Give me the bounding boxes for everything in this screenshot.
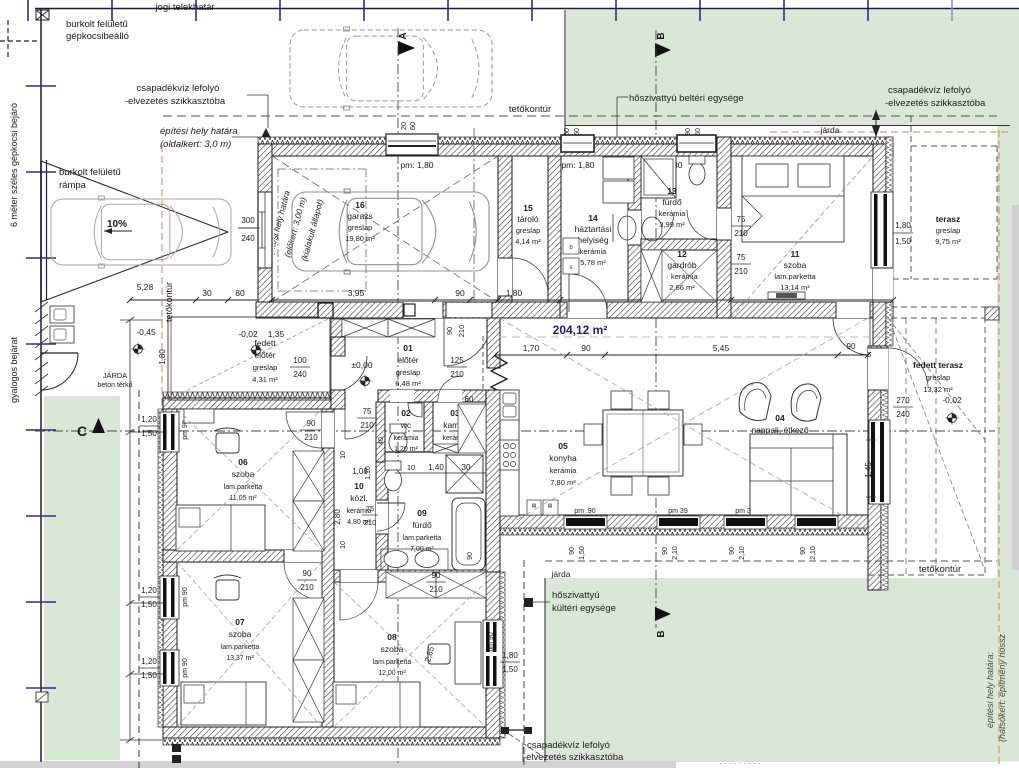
axis line garage window xyxy=(473,128,475,310)
wall west of wc xyxy=(376,402,385,462)
svg-text:90: 90 xyxy=(307,419,316,428)
garage vehicle door opening xyxy=(256,192,274,268)
svg-text:B: B xyxy=(656,32,667,39)
room11 radiator xyxy=(768,292,805,299)
living area label box xyxy=(752,437,808,459)
svg-text:tetőkontúr: tetőkontúr xyxy=(919,564,961,575)
svg-text:75: 75 xyxy=(363,407,372,416)
drain symbol top wall xyxy=(261,128,271,138)
wc corner basin xyxy=(408,403,422,417)
svg-text:210: 210 xyxy=(304,433,318,442)
bath09 sinks xyxy=(381,549,448,570)
svg-text:10: 10 xyxy=(354,481,364,491)
svg-text:7,80 m²: 7,80 m² xyxy=(550,478,576,487)
svg-text:előtér: előtér xyxy=(254,350,275,360)
svg-text:közl.: közl. xyxy=(350,493,367,503)
svg-text:pm 90: pm 90 xyxy=(182,658,189,678)
svg-text:90: 90 xyxy=(800,547,807,555)
bedroom07 chair xyxy=(216,580,239,600)
svg-text:210: 210 xyxy=(450,370,464,379)
svg-text:1,80: 1,80 xyxy=(502,651,518,660)
svg-text:kerámia: kerámia xyxy=(659,209,687,218)
roof contour dashed top xyxy=(163,115,997,117)
svg-text:lam.parketta: lam.parketta xyxy=(224,484,263,491)
svg-text:15: 15 xyxy=(523,203,533,213)
svg-text:greslap: greslap xyxy=(396,368,421,377)
bath09 toilet xyxy=(385,469,402,491)
svg-text:210: 210 xyxy=(429,585,443,594)
svg-text:1,80: 1,80 xyxy=(506,288,523,298)
svg-text:14: 14 xyxy=(588,213,598,223)
living sofa xyxy=(750,434,847,515)
bedroom06 bed xyxy=(176,505,265,551)
wall garage left xyxy=(258,144,272,317)
svg-text:tetőkontúr: tetőkontúr xyxy=(164,282,174,322)
covered terrace dashed outline xyxy=(891,306,985,308)
svg-text:1,20: 1,20 xyxy=(141,657,157,666)
svg-text:06: 06 xyxy=(238,457,248,467)
svg-text:210: 210 xyxy=(457,325,466,338)
svg-text:jogi telekhatár: jogi telekhatár xyxy=(154,2,214,13)
orange dashed line vertical right xyxy=(998,130,1000,765)
svg-text:75: 75 xyxy=(737,215,746,224)
svg-text:fedett terasz: fedett terasz xyxy=(913,360,963,370)
window living right wall xyxy=(869,420,890,504)
bedroom07 diagonals xyxy=(177,562,322,727)
section line A-A vertical dash-dot xyxy=(397,28,399,764)
svg-text:hőszivattyú beltéri egysége: hőszivattyú beltéri egysége xyxy=(629,93,744,104)
living armchair 2 xyxy=(791,384,821,421)
car in garage xyxy=(292,192,489,271)
car parked top (dashed) xyxy=(290,30,492,107)
svg-text:gépkocsibeálló: gépkocsibeálló xyxy=(66,31,129,42)
wall north of bedroom06 xyxy=(163,392,334,398)
wall bath column west of kitchen xyxy=(486,390,500,572)
svg-text:20: 20 xyxy=(399,122,408,130)
bedroom06 wardrobe xyxy=(293,451,324,501)
svg-text:240: 240 xyxy=(241,234,255,243)
covered entry outline xyxy=(168,317,330,400)
bath13 shower xyxy=(641,156,676,198)
bedroom06 desk xyxy=(184,409,214,423)
bath13 toilet xyxy=(689,163,705,185)
bedroom07 bed xyxy=(181,682,266,725)
svg-text:07: 07 xyxy=(235,617,245,627)
svg-text:240: 240 xyxy=(896,410,910,419)
roof contour dashed bottom xyxy=(545,560,997,562)
svg-text:4,14 m²: 4,14 m² xyxy=(515,237,541,246)
wall east exterior bedroom08 xyxy=(486,572,500,738)
wall right exterior north section xyxy=(873,144,886,346)
svg-text:1,70: 1,70 xyxy=(523,343,540,353)
svg-text:19,80 m²: 19,80 m² xyxy=(345,234,375,243)
svg-text:1,50: 1,50 xyxy=(579,546,586,560)
svg-text:1,08: 1,08 xyxy=(352,467,368,476)
svg-text:90: 90 xyxy=(569,547,576,555)
room14 small boxes xyxy=(563,238,579,254)
svg-text:C: C xyxy=(77,423,87,439)
svg-text:kültéri egysége: kültéri egysége xyxy=(552,603,616,614)
room11 dashed diagonal xyxy=(731,156,873,318)
svg-text:90: 90 xyxy=(455,288,465,298)
bedroom08 desk xyxy=(455,622,481,684)
svg-text:5,78 m²: 5,78 m² xyxy=(580,258,606,267)
window room11 right wall xyxy=(871,192,893,268)
pedestrian gate arc xyxy=(41,353,78,390)
dining table xyxy=(603,410,683,476)
svg-text:13,14 m²: 13,14 m² xyxy=(780,283,810,292)
green zone bottom right xyxy=(545,578,997,762)
garage dim line bottom xyxy=(272,299,893,301)
wall garage right xyxy=(498,156,512,302)
svg-text:2,10: 2,10 xyxy=(739,546,746,560)
door swing room14 xyxy=(569,274,607,312)
svg-text:pm: 1,80: pm: 1,80 xyxy=(561,160,594,170)
wall wc-kamra partition xyxy=(424,402,433,452)
svg-text:90: 90 xyxy=(685,128,692,136)
svg-text:tároló: tároló xyxy=(517,214,539,224)
wall between storage15 and room14 xyxy=(548,156,561,302)
svg-text:pm .90: pm .90 xyxy=(574,508,596,515)
svg-text:csapadékvíz lefolyó: csapadékvíz lefolyó xyxy=(888,85,971,96)
wall between bedroom06 and 07 xyxy=(163,550,322,562)
window garage top wall xyxy=(386,134,438,155)
svg-text:(hátsókert: építmény hossz: (hátsókert: építmény hossz xyxy=(997,633,1007,742)
wall right exterior living section xyxy=(868,346,881,590)
door opening kamra xyxy=(438,390,462,402)
svg-text:75: 75 xyxy=(737,253,746,262)
svg-text:lam.parketta: lam.parketta xyxy=(373,659,412,666)
window box room14 top wall xyxy=(561,135,594,152)
svg-text:terasz: terasz xyxy=(936,214,961,224)
svg-text:4,31 m²: 4,31 m² xyxy=(252,375,278,384)
jarda top edge line xyxy=(565,125,1010,127)
wall garage bottom / south wall of north wing xyxy=(256,302,560,318)
kamra shelf x xyxy=(458,404,486,453)
svg-text:270: 270 xyxy=(896,396,910,405)
svg-text:csapadékvíz lefolyó: csapadékvíz lefolyó xyxy=(527,740,610,751)
svg-text:greslap: greslap xyxy=(348,223,373,232)
svg-text:greslap: greslap xyxy=(936,226,961,235)
window box room13 top wall xyxy=(677,135,716,152)
svg-text:9,75 m²: 9,75 m² xyxy=(935,237,961,246)
svg-text:90: 90 xyxy=(445,327,454,335)
svg-text:csapadékvíz lefolyó: csapadékvíz lefolyó xyxy=(137,83,220,94)
living armchair 1 xyxy=(739,383,771,421)
svg-text:háztartási: háztartási xyxy=(575,224,612,234)
grey band right edge xyxy=(1012,205,1019,570)
dim line below ramp xyxy=(130,299,264,301)
door opening room11 xyxy=(836,302,870,318)
room11 bed xyxy=(742,156,844,242)
bedroom08 bed xyxy=(333,682,420,727)
front door leaf xyxy=(404,304,415,316)
svg-text:4,80 m²: 4,80 m² xyxy=(347,519,371,526)
svg-text:11: 11 xyxy=(791,249,800,259)
svg-text:konyha: konyha xyxy=(549,453,577,463)
door opening room14 xyxy=(567,302,607,318)
wall top exterior insulation xyxy=(258,137,893,144)
window bedroom07 west upper xyxy=(160,576,179,619)
dashed opening entry to kitchen xyxy=(482,336,484,390)
wall corridor west (bedrooms east wall) xyxy=(322,409,334,742)
waste bins left boundary xyxy=(50,306,74,323)
svg-text:5,45: 5,45 xyxy=(713,343,730,353)
svg-text:1,50: 1,50 xyxy=(141,600,157,609)
bedroom06 chair xyxy=(216,433,239,453)
wall west exterior left wing xyxy=(163,409,177,727)
svg-text:pm: 1,80: pm: 1,80 xyxy=(400,160,433,170)
left dimension chain line xyxy=(129,320,131,740)
svg-text:90: 90 xyxy=(467,552,474,560)
svg-text:pm 90: pm 90 xyxy=(182,587,189,607)
svg-text:A: A xyxy=(398,32,409,39)
kitchen sink unit xyxy=(500,390,519,420)
svg-text:90: 90 xyxy=(662,547,669,555)
svg-text:09: 09 xyxy=(417,508,427,518)
svg-text:-elvezetés szikkasztóba: -elvezetés szikkasztóba xyxy=(523,752,624,763)
door opening bedroom07 xyxy=(284,550,322,562)
bedroom08 wardrobe top xyxy=(386,572,436,598)
door to terrace in right wall xyxy=(873,268,893,302)
kitchen base cabinets xyxy=(527,500,541,515)
wall top exterior xyxy=(258,144,893,156)
svg-text:60: 60 xyxy=(574,128,581,136)
bath13 sink xyxy=(642,217,662,241)
svg-text:±0,00: ±0,00 xyxy=(351,360,372,370)
svg-text:6 méter széles gépkocsi bejáró: 6 méter széles gépkocsi bejáró xyxy=(9,103,19,227)
svg-text:járda: járda xyxy=(551,569,571,579)
svg-text:80: 80 xyxy=(235,288,245,298)
svg-text:01: 01 xyxy=(403,343,413,353)
svg-text:204,12 m²: 204,12 m² xyxy=(553,323,608,337)
svg-text:1,50: 1,50 xyxy=(502,665,518,674)
svg-text:· · · · · · · · ·: · · · · · · · · · xyxy=(719,759,761,768)
door opening room11 from hall xyxy=(717,208,731,240)
wall north of wc-kamra xyxy=(378,390,486,402)
svg-text:burkolt felületű: burkolt felületű xyxy=(66,19,128,30)
svg-text:300: 300 xyxy=(241,216,255,225)
svg-text:járda: járda xyxy=(820,125,840,135)
svg-text:60: 60 xyxy=(695,128,702,136)
svg-text:szoba: szoba xyxy=(784,260,807,270)
entry-porch wall with main door xyxy=(331,337,345,356)
svg-text:burkolt felületű: burkolt felületű xyxy=(59,167,121,178)
svg-text:lam.parketta: lam.parketta xyxy=(221,644,260,651)
covered terrace hatch square xyxy=(985,307,999,320)
corner marker square top left xyxy=(36,10,49,20)
svg-text:60: 60 xyxy=(465,395,474,404)
window bedroom07 west lower xyxy=(160,650,179,686)
svg-text:építési hely határa:: építési hely határa: xyxy=(985,651,995,728)
svg-text:lam.parketta: lam.parketta xyxy=(403,535,442,542)
svg-text:(oldalkert: 3,0 m): (oldalkert: 3,0 m) xyxy=(160,139,231,150)
svg-text:125: 125 xyxy=(450,356,464,365)
garage inner dashed rect xyxy=(278,168,366,170)
svg-text:kerámia: kerámia xyxy=(550,466,578,475)
svg-text:12: 12 xyxy=(677,249,687,259)
wall entry-kitchen partition xyxy=(487,318,500,368)
svg-text:lam.parketta: lam.parketta xyxy=(774,272,816,281)
svg-text:13: 13 xyxy=(667,186,677,196)
svg-text:kerámia: kerámia xyxy=(580,247,608,256)
svg-text:90: 90 xyxy=(847,342,856,351)
bottom wall exterior markers xyxy=(172,744,181,752)
room14 sink xyxy=(618,216,636,240)
svg-text:2,10: 2,10 xyxy=(810,546,817,560)
svg-text:10: 10 xyxy=(340,451,347,459)
svg-text:100: 100 xyxy=(293,356,307,365)
front door opening in wall xyxy=(403,302,443,318)
svg-text:13,37 m²: 13,37 m² xyxy=(226,655,254,662)
svg-text:210: 210 xyxy=(300,583,314,592)
svg-text:6,48 m²: 6,48 m² xyxy=(395,379,421,388)
svg-text:40: 40 xyxy=(378,437,385,445)
green strip right edge xyxy=(997,10,1019,762)
svg-text:90: 90 xyxy=(581,343,591,353)
svg-text:2,80: 2,80 xyxy=(333,509,342,525)
svg-text:1,45: 1,45 xyxy=(864,462,873,478)
svg-text:1,35: 1,35 xyxy=(268,329,285,339)
garage-entry door swing arc xyxy=(444,318,492,366)
svg-text:fürdő: fürdő xyxy=(662,197,682,207)
section line B-B vertical dash-dot xyxy=(655,30,657,628)
dim line living top xyxy=(495,354,868,356)
wall south of rooms 14-12 xyxy=(560,302,731,318)
zigzag insulation kitchen wall head xyxy=(491,356,507,393)
svg-text:fürdő: fürdő xyxy=(412,520,432,530)
svg-text:1,80: 1,80 xyxy=(895,221,911,230)
svg-text:hőszivattyú: hőszivattyú xyxy=(552,590,600,601)
dashed vertical line bottom center xyxy=(523,560,525,768)
wall south of room 11 xyxy=(731,302,893,318)
dashed line top left edge xyxy=(0,40,40,42)
drain symbol bottom right of house xyxy=(501,727,509,734)
bedroom07 wardrobe xyxy=(293,598,324,660)
svg-text:építési hely határa: építési hely határa xyxy=(160,126,238,137)
svg-text:▤: ▤ xyxy=(548,503,553,509)
house corner extension line to property line xyxy=(564,10,566,137)
svg-text:1,50: 1,50 xyxy=(895,237,911,246)
svg-text:garazs: garazs xyxy=(347,211,373,221)
svg-text:1,50: 1,50 xyxy=(141,429,157,438)
ramp triangle outline xyxy=(41,161,228,232)
bath09 dim line xyxy=(395,472,486,474)
svg-text:10%: 10% xyxy=(107,219,127,230)
covered terrace dashed verticals xyxy=(905,318,907,575)
blue survey ticks top xyxy=(27,0,29,21)
garage door dim line xyxy=(261,212,263,248)
wall corridor-bath partition xyxy=(376,462,388,572)
svg-text:10: 10 xyxy=(340,541,347,549)
door to covered terrace living xyxy=(868,348,888,390)
svg-text:beton térkő: beton térkő xyxy=(97,382,132,389)
svg-text:-0,02: -0,02 xyxy=(238,329,258,339)
svg-text:210: 210 xyxy=(360,421,374,430)
svg-text:02: 02 xyxy=(401,408,411,418)
gardrobe12 wardrobe xyxy=(641,250,662,302)
door opening storage15 from garage xyxy=(498,258,512,296)
section line C-C horizontal dash-dot xyxy=(35,430,995,432)
svg-text:10: 10 xyxy=(407,463,415,472)
svg-text:gardrób: gardrób xyxy=(667,260,697,270)
garage-entry door opening xyxy=(446,303,492,317)
main door opening xyxy=(331,355,345,357)
svg-text:s: s xyxy=(570,265,573,271)
svg-text:B: B xyxy=(656,630,667,637)
property line left xyxy=(40,8,42,762)
svg-text:90: 90 xyxy=(729,547,736,555)
wall north of bedroom08 xyxy=(334,570,486,582)
gardrobe x floor xyxy=(662,250,717,302)
svg-text:2,66 m²: 2,66 m² xyxy=(669,283,695,292)
door swing room11 into living xyxy=(833,318,870,355)
svg-text:2,10: 2,10 xyxy=(672,546,679,560)
door opening bedroom08 xyxy=(340,570,378,582)
svg-text:210: 210 xyxy=(734,229,748,238)
svg-text:1,20: 1,20 xyxy=(141,586,157,595)
svg-text:13,32 m²: 13,32 m² xyxy=(923,385,953,394)
wall between room14 and bath13 xyxy=(628,156,641,302)
orange dashed line vertical left xyxy=(161,145,163,695)
door opening bath09 xyxy=(376,500,388,534)
svg-text:90: 90 xyxy=(303,569,312,578)
svg-text:gyalogos bejárat: gyalogos bejárat xyxy=(9,336,19,403)
svg-text:60: 60 xyxy=(408,122,417,130)
wall south exterior left wing xyxy=(163,727,500,738)
dining chairs xyxy=(611,391,632,409)
wall between bath13 and gardrobe12 xyxy=(641,239,717,250)
svg-text:1,50: 1,50 xyxy=(141,671,157,680)
wall below wc-kamra xyxy=(378,451,486,453)
svg-text:▤: ▤ xyxy=(532,503,537,509)
svg-text:kerámia: kerámia xyxy=(347,508,372,515)
car on ramp xyxy=(51,199,231,265)
svg-text:60: 60 xyxy=(564,128,571,136)
svg-text:30: 30 xyxy=(462,463,471,472)
svg-text:3,95: 3,95 xyxy=(348,288,365,298)
svg-text:wc: wc xyxy=(400,420,412,430)
blue survey ticks left xyxy=(26,85,56,87)
green zone top right xyxy=(566,10,1019,127)
svg-text:rámpa: rámpa xyxy=(59,180,87,191)
svg-text:előtér: előtér xyxy=(397,355,418,365)
svg-text:kerámia: kerámia xyxy=(394,435,419,442)
svg-text:tetőkontúr: tetőkontúr xyxy=(509,104,551,115)
windows living south wall xyxy=(564,516,607,529)
svg-text:-elvezetés szikkasztóba: -elvezetés szikkasztóba xyxy=(885,98,986,109)
garage diagonal dashed lines xyxy=(272,156,498,302)
bedroom08 diagonals xyxy=(334,582,486,727)
bedroom06 diagonals xyxy=(177,409,322,550)
svg-text:greslap: greslap xyxy=(926,373,951,382)
wall between gardrobe and room11 xyxy=(717,137,731,318)
kitchen counter xyxy=(500,390,519,516)
shower bath09 xyxy=(446,455,483,493)
dashed build line left wing xyxy=(138,390,140,768)
room14 appliances xyxy=(603,157,634,179)
kitchen top box with x xyxy=(503,396,515,408)
svg-text:pm 39: pm 39 xyxy=(668,508,688,515)
svg-text:05: 05 xyxy=(558,441,568,451)
svg-text:greslap: greslap xyxy=(253,363,278,372)
property line top (jogi telekhatar) xyxy=(35,8,1019,10)
kitchen stove xyxy=(500,440,519,470)
svg-text:1,20 m²: 1,20 m² xyxy=(394,446,418,453)
svg-text:-elvezetés szikkasztóba: -elvezetés szikkasztóba xyxy=(125,96,226,107)
svg-text:30: 30 xyxy=(202,288,212,298)
svg-text:-0,45: -0,45 xyxy=(136,327,156,337)
